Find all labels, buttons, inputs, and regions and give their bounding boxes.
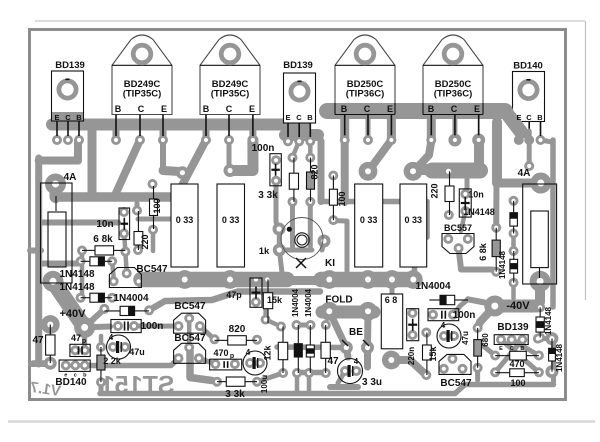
- svg-text:B: B: [341, 104, 348, 114]
- svg-text:3 3k: 3 3k: [258, 190, 278, 201]
- svg-text:3 3k: 3 3k: [225, 389, 245, 400]
- svg-text:1N4148: 1N4148: [59, 269, 94, 280]
- svg-text:4A: 4A: [518, 168, 531, 179]
- svg-text:E: E: [516, 113, 521, 122]
- svg-text:4: 4: [109, 333, 114, 342]
- svg-text:BE: BE: [349, 327, 363, 338]
- svg-text:100: 100: [510, 378, 525, 388]
- svg-text:c: c: [74, 373, 77, 379]
- svg-text:4: 4: [246, 348, 251, 357]
- svg-text:47p: 47p: [226, 290, 242, 300]
- svg-text:47u: 47u: [129, 347, 145, 357]
- svg-text:0 33: 0 33: [222, 215, 240, 225]
- svg-text:(TIP35C): (TIP35C): [123, 89, 162, 100]
- svg-text:2 2k: 2 2k: [103, 356, 122, 366]
- svg-text:C: C: [296, 113, 302, 122]
- svg-text:1N4004: 1N4004: [304, 288, 313, 317]
- svg-text:12k: 12k: [263, 345, 273, 361]
- svg-text:ST151: ST151: [101, 372, 175, 400]
- svg-text:15k: 15k: [428, 346, 438, 362]
- svg-text:1N4148: 1N4148: [498, 250, 507, 279]
- svg-text:+40V: +40V: [60, 308, 87, 320]
- svg-text:47: 47: [32, 335, 44, 346]
- svg-text:FOLD: FOLD: [325, 295, 352, 306]
- svg-text:E: E: [249, 104, 255, 114]
- svg-text:1N4004: 1N4004: [113, 293, 148, 304]
- svg-text:C: C: [526, 113, 532, 122]
- svg-text:4: 4: [441, 321, 446, 330]
- svg-text:BD139: BD139: [497, 322, 529, 333]
- svg-text:100n: 100n: [453, 310, 476, 321]
- svg-text:E: E: [54, 113, 59, 122]
- svg-text:C: C: [138, 104, 145, 114]
- svg-text:0 33: 0 33: [176, 215, 194, 225]
- svg-text:C: C: [65, 113, 71, 122]
- svg-text:100u: 100u: [260, 375, 269, 393]
- svg-text:B: B: [537, 113, 543, 122]
- svg-text:15k: 15k: [267, 295, 283, 305]
- svg-text:B: B: [76, 113, 82, 122]
- svg-text:6 8k: 6 8k: [478, 242, 488, 261]
- svg-text:B: B: [203, 104, 210, 114]
- svg-text:220: 220: [140, 234, 150, 249]
- svg-text:1k: 1k: [259, 246, 270, 257]
- svg-text:BC547: BC547: [174, 333, 206, 344]
- svg-text:1N4148: 1N4148: [463, 207, 495, 217]
- svg-text:B: B: [307, 113, 313, 122]
- svg-text:470: 470: [213, 348, 228, 358]
- svg-text:1N4004: 1N4004: [415, 281, 450, 292]
- svg-text:(TIP35C): (TIP35C): [211, 89, 250, 100]
- svg-text:100n: 100n: [252, 143, 275, 154]
- svg-text:C: C: [364, 104, 371, 114]
- svg-text:BC547: BC547: [136, 264, 168, 275]
- svg-text:47: 47: [71, 333, 81, 343]
- svg-text:0 33: 0 33: [360, 215, 378, 225]
- svg-text:E: E: [499, 346, 503, 352]
- svg-text:E: E: [387, 104, 393, 114]
- svg-text:(TIP36C): (TIP36C): [434, 89, 473, 100]
- svg-text:p: p: [230, 353, 234, 360]
- svg-text:e: e: [64, 373, 67, 379]
- svg-text:47: 47: [327, 356, 339, 367]
- svg-text:BC547: BC547: [440, 378, 472, 389]
- svg-text:B: B: [428, 104, 435, 114]
- svg-text:100: 100: [337, 191, 347, 206]
- svg-text:10n: 10n: [468, 190, 484, 200]
- svg-text:E: E: [474, 104, 480, 114]
- svg-text:1N4148: 1N4148: [555, 343, 564, 372]
- svg-text:p: p: [82, 338, 86, 345]
- svg-text:3 3u: 3 3u: [362, 377, 382, 388]
- svg-text:C: C: [451, 104, 458, 114]
- svg-text:470: 470: [509, 359, 524, 369]
- svg-text:100n: 100n: [141, 321, 164, 332]
- svg-text:1N4148: 1N4148: [59, 282, 94, 293]
- svg-text:KI: KI: [325, 258, 335, 269]
- svg-text:100: 100: [152, 198, 162, 213]
- svg-text:-40V: -40V: [506, 300, 530, 312]
- svg-text:C: C: [226, 104, 233, 114]
- svg-text:47u: 47u: [461, 331, 470, 345]
- svg-text:BD140: BD140: [513, 61, 543, 72]
- svg-text:220: 220: [430, 183, 440, 198]
- svg-text:C: C: [510, 346, 514, 352]
- svg-text:6 8: 6 8: [385, 295, 398, 305]
- svg-text:E: E: [161, 104, 167, 114]
- svg-text:820: 820: [310, 164, 320, 179]
- svg-text:B: B: [520, 346, 524, 352]
- svg-text:220n: 220n: [407, 347, 416, 365]
- svg-text:E: E: [285, 113, 290, 122]
- svg-text:4: 4: [354, 357, 359, 366]
- svg-text:(TIP36C): (TIP36C): [346, 89, 385, 100]
- svg-text:BD139: BD139: [55, 60, 85, 71]
- svg-text:820: 820: [229, 324, 246, 335]
- svg-text:10n: 10n: [96, 219, 113, 230]
- svg-text:BC547: BC547: [174, 301, 206, 312]
- svg-text:4A: 4A: [64, 172, 77, 183]
- svg-text:1N4004: 1N4004: [291, 288, 300, 317]
- svg-text:1N4148: 1N4148: [544, 306, 553, 335]
- svg-text:B: B: [115, 104, 122, 114]
- svg-text:6 8k: 6 8k: [93, 234, 113, 245]
- svg-text:BD139: BD139: [283, 60, 313, 71]
- svg-text:0 33: 0 33: [405, 215, 423, 225]
- svg-text:680: 680: [481, 333, 490, 347]
- svg-text:BC557: BC557: [444, 223, 472, 233]
